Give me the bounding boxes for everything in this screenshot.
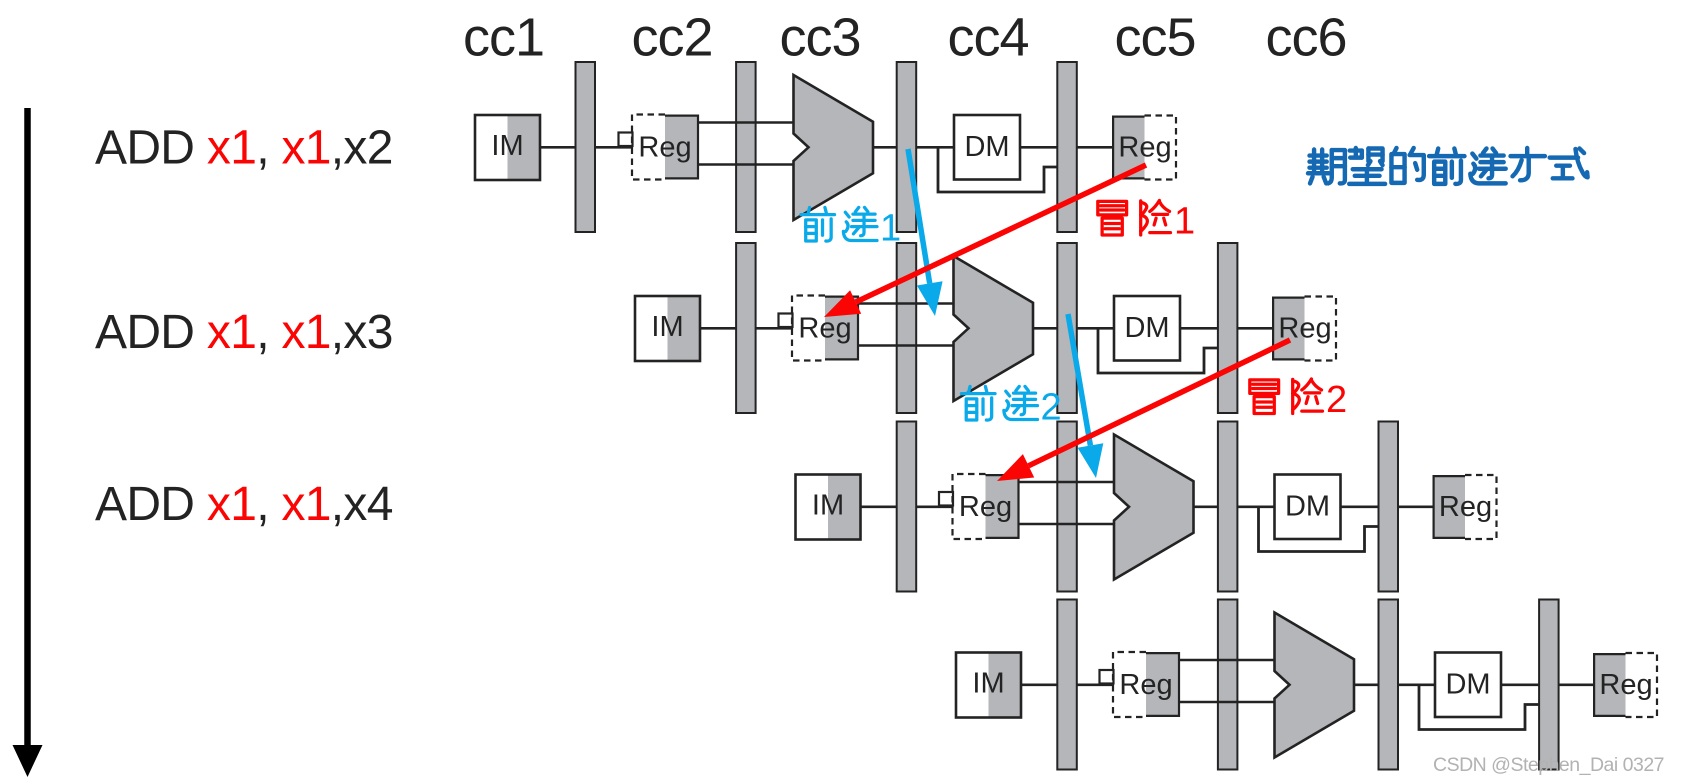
svg-text:Reg: Reg <box>1119 669 1172 701</box>
svg-text:cc3: cc3 <box>779 8 860 68</box>
svg-text:cc2: cc2 <box>631 8 712 68</box>
svg-text:ADD x1, x1,x2: ADD x1, x1,x2 <box>95 122 393 175</box>
svg-text:Reg: Reg <box>1599 669 1652 701</box>
svg-text:IM: IM <box>651 311 683 343</box>
svg-text:ADD x1, x1,x3: ADD x1, x1,x3 <box>95 306 393 359</box>
svg-text:1: 1 <box>1174 201 1195 243</box>
svg-text:cc5: cc5 <box>1114 8 1195 68</box>
svg-text:cc6: cc6 <box>1265 8 1346 68</box>
svg-text:IM: IM <box>491 130 523 162</box>
svg-text:DM: DM <box>1445 669 1490 701</box>
svg-text:1: 1 <box>880 208 901 250</box>
svg-text:Reg: Reg <box>638 132 691 164</box>
svg-text:Reg: Reg <box>1118 132 1171 164</box>
svg-text:cc1: cc1 <box>463 8 544 68</box>
svg-text:cc4: cc4 <box>947 8 1028 68</box>
svg-text:CSDN @Stephen_Dai 0327: CSDN @Stephen_Dai 0327 <box>1433 754 1664 776</box>
svg-text:IM: IM <box>972 668 1004 700</box>
svg-text:DM: DM <box>1285 491 1330 523</box>
svg-text:IM: IM <box>812 490 844 522</box>
svg-text:Reg: Reg <box>798 313 851 345</box>
svg-text:Reg: Reg <box>1439 491 1492 523</box>
svg-text:ADD x1, x1,x4: ADD x1, x1,x4 <box>95 478 393 531</box>
svg-text:2: 2 <box>1041 387 1062 429</box>
svg-text:2: 2 <box>1326 379 1347 421</box>
svg-text:DM: DM <box>1124 312 1169 344</box>
svg-text:DM: DM <box>964 131 1009 163</box>
svg-text:Reg: Reg <box>959 491 1012 523</box>
